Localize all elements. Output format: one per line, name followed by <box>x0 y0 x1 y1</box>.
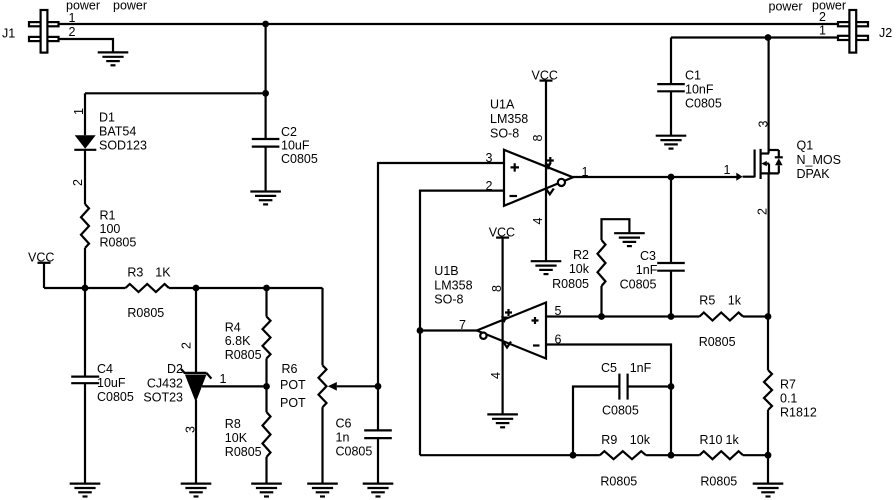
svg-text:2: 2 <box>756 208 770 215</box>
svg-text:C5: C5 <box>601 361 617 375</box>
svg-text:N_MOS: N_MOS <box>797 153 841 167</box>
svg-text:0.1: 0.1 <box>780 392 797 406</box>
svg-text:R4: R4 <box>225 321 241 335</box>
svg-text:7: 7 <box>459 318 466 332</box>
U1A VCC bar <box>540 79 553 81</box>
ground (C6) <box>363 484 394 497</box>
svg-text:R0805: R0805 <box>225 445 262 459</box>
svg-text:SO-8: SO-8 <box>434 293 463 307</box>
wire J1 pin2 to ground <box>59 39 114 52</box>
junction at wiper <box>375 383 382 390</box>
svg-text:power: power <box>769 0 803 14</box>
svg-text:C2: C2 <box>281 125 297 139</box>
junction at C3 bottom <box>668 313 675 320</box>
ground (C4) <box>70 484 101 497</box>
svg-text:10K: 10K <box>225 431 248 445</box>
svg-text:power: power <box>113 0 147 13</box>
junction at C5 left <box>570 452 577 459</box>
capacitor C2 <box>252 139 280 147</box>
wire net power: J1 pin1 to J2 pin2 <box>59 23 839 25</box>
ground (C1) <box>656 136 687 149</box>
svg-text:J2: J2 <box>879 26 892 40</box>
capacitor C5 <box>619 374 627 400</box>
svg-text:1K: 1K <box>155 266 171 280</box>
op-amp U1B <box>477 303 546 359</box>
svg-text:C0805: C0805 <box>602 404 639 418</box>
ground (U1A pin4) <box>531 261 562 274</box>
ground (R8) <box>251 484 282 497</box>
svg-text:2: 2 <box>180 342 194 349</box>
svg-text:1nF: 1nF <box>636 263 658 277</box>
junction on top wire at C2 <box>262 21 269 28</box>
capacitor C4 <box>71 377 99 384</box>
svg-text:R0805: R0805 <box>700 475 737 489</box>
wire U1B pin7 <box>420 329 477 331</box>
svg-text:C0805: C0805 <box>281 152 318 166</box>
transistor Q1 N-MOS <box>736 149 783 181</box>
wire feedback bottom left <box>420 454 600 456</box>
junction rail at R4 <box>263 285 270 292</box>
wire C6 to ground <box>377 438 379 484</box>
svg-text:R5: R5 <box>699 293 715 307</box>
wire R5 to Q1 source <box>743 315 768 317</box>
svg-text:6.8K: 6.8K <box>225 334 251 348</box>
svg-text:C4: C4 <box>97 362 113 376</box>
wire C2 to ground <box>265 147 267 192</box>
svg-text:R0805: R0805 <box>100 236 137 250</box>
wire to D1 anode <box>84 93 86 135</box>
svg-text:1: 1 <box>72 108 86 115</box>
resistor R4 <box>263 317 271 359</box>
svg-text:C0805: C0805 <box>97 390 134 404</box>
svg-text:4: 4 <box>489 372 503 379</box>
svg-text:Q1: Q1 <box>797 139 814 153</box>
svg-text:1n: 1n <box>336 431 350 445</box>
resistor R10 <box>700 451 744 459</box>
wire VCC rail left <box>44 287 126 289</box>
wire R1 to VCC rail <box>84 248 86 288</box>
wire R9 to R10 <box>646 454 700 456</box>
svg-text:R1: R1 <box>100 209 116 223</box>
wire U1A output to Q1 gate <box>573 176 737 178</box>
svg-text:power: power <box>66 0 100 13</box>
svg-text:POT: POT <box>280 378 306 392</box>
svg-text:3: 3 <box>486 151 493 165</box>
diode D1 <box>74 135 96 150</box>
wire C2 column upper <box>265 24 267 139</box>
U1B VCC bar <box>496 237 509 239</box>
ground (R6) <box>307 484 338 497</box>
wire C3 bottom <box>670 271 672 317</box>
svg-text:BAT54: BAT54 <box>99 125 136 139</box>
junction at R7 bottom <box>765 452 772 459</box>
svg-text:R9: R9 <box>601 433 617 447</box>
svg-text:8: 8 <box>531 135 545 142</box>
svg-text:SO-8: SO-8 <box>490 126 519 140</box>
svg-text:R6: R6 <box>282 362 298 376</box>
svg-text:POT: POT <box>280 396 306 410</box>
wire R8 to ground <box>265 457 267 484</box>
svg-text:R0805: R0805 <box>552 277 589 291</box>
svg-text:C0805: C0805 <box>685 97 722 111</box>
ground (U1B pin4) <box>487 414 518 427</box>
svg-text:1k: 1k <box>728 293 742 307</box>
wire C3 top <box>670 177 672 263</box>
junction at U1B pin7 <box>417 327 424 334</box>
connector J1 <box>29 10 59 53</box>
svg-text:D2: D2 <box>167 362 183 376</box>
svg-text:100: 100 <box>100 222 121 236</box>
junction at C5 right <box>668 383 675 390</box>
svg-text:2: 2 <box>486 179 493 193</box>
svg-text:CJ432: CJ432 <box>147 377 183 391</box>
wire R2 bottom <box>600 286 602 317</box>
wire R2 top to ground <box>602 219 630 240</box>
svg-text:R0805: R0805 <box>225 348 262 362</box>
C5 right wire <box>628 385 671 387</box>
svg-text:LM358: LM358 <box>490 112 528 126</box>
op-amp U1A <box>504 150 573 206</box>
diode D2 (CJ432) <box>181 369 211 402</box>
svg-text:D1: D1 <box>99 111 115 125</box>
junction at C2 column <box>262 90 269 97</box>
svg-text:DPAK: DPAK <box>797 167 831 181</box>
svg-text:1: 1 <box>724 163 731 177</box>
capacitor C1 <box>657 84 685 91</box>
ground (J1 pin2) <box>98 52 129 65</box>
svg-text:1k: 1k <box>726 433 740 447</box>
wire rail to R4 <box>265 288 267 317</box>
connector J2 <box>838 10 868 53</box>
svg-text:R3: R3 <box>127 266 143 280</box>
junction at R7 top <box>765 313 772 320</box>
svg-text:10nF: 10nF <box>685 83 714 97</box>
svg-text:C0805: C0805 <box>336 445 373 459</box>
svg-text:1: 1 <box>819 24 826 38</box>
wire wiper to C6 <box>377 386 379 430</box>
wire U1B pin6 net <box>546 345 671 456</box>
wire C1 top <box>670 38 672 85</box>
resistor R7 <box>764 370 772 410</box>
VCC stem <box>43 263 45 288</box>
wire rail to R6 <box>321 288 323 365</box>
wire U1B pin5 net <box>546 315 700 317</box>
svg-text:R1812: R1812 <box>780 406 817 420</box>
svg-text:2: 2 <box>69 25 76 39</box>
wire C1 to ground <box>670 91 672 135</box>
svg-text:5: 5 <box>555 304 562 318</box>
wire R4 to R8 <box>265 359 267 413</box>
capacitor C3 <box>657 263 685 271</box>
wire C4 to ground <box>84 383 86 483</box>
potentiometer R6 <box>319 365 337 407</box>
wire R7 to ground <box>767 410 769 484</box>
R6 wiper wire <box>337 385 378 387</box>
resistor R2 <box>598 240 606 286</box>
svg-text:LM358: LM358 <box>434 278 472 292</box>
junction at R2 <box>598 313 605 320</box>
svg-text:U1A: U1A <box>490 97 515 111</box>
ground (D2) <box>181 484 212 497</box>
svg-text:power: power <box>812 0 846 13</box>
resistor R3 <box>126 284 169 292</box>
svg-text:10uF: 10uF <box>97 376 126 390</box>
svg-text:2: 2 <box>71 179 85 186</box>
svg-text:R10: R10 <box>700 433 723 447</box>
capacitor C6 <box>364 430 392 438</box>
junction rail at R1/C4 <box>82 285 89 292</box>
svg-text:R0805: R0805 <box>127 306 164 320</box>
wire D1 to R1 <box>84 150 86 204</box>
svg-text:R0805: R0805 <box>600 475 637 489</box>
svg-text:U1B: U1B <box>434 264 458 278</box>
wire J2 pin1 net <box>671 36 838 38</box>
U1A power line <box>545 81 547 262</box>
svg-text:10uF: 10uF <box>281 138 310 152</box>
svg-text:10k: 10k <box>630 433 651 447</box>
svg-text:R2: R2 <box>573 248 589 262</box>
Q1 drain wire <box>767 38 769 154</box>
wire D2 to ground <box>195 400 197 484</box>
wire rail to D2 <box>195 288 197 372</box>
svg-text:R7: R7 <box>780 378 796 392</box>
resistor R5 <box>700 313 744 321</box>
ground (R7) <box>753 484 784 497</box>
svg-text:4: 4 <box>531 218 545 225</box>
svg-text:1: 1 <box>220 372 227 386</box>
D2 ref pin wire <box>202 385 267 387</box>
wire VCC rail right <box>169 287 323 289</box>
svg-text:10k: 10k <box>569 262 590 276</box>
wire U1A pin3 net <box>378 163 504 386</box>
svg-text:SOD123: SOD123 <box>99 139 147 153</box>
svg-text:J1: J1 <box>2 27 15 41</box>
wire R7 top <box>767 317 769 371</box>
svg-text:SOT23: SOT23 <box>143 391 183 405</box>
wire U1A pin2 net to feedback <box>420 191 504 456</box>
resistor R1 <box>81 204 89 248</box>
svg-text:R8: R8 <box>225 417 241 431</box>
resistor R9 <box>600 451 646 459</box>
junction at R9 right <box>668 452 675 459</box>
svg-text:C6: C6 <box>336 417 352 431</box>
svg-text:1nF: 1nF <box>630 361 652 375</box>
svg-text:C3: C3 <box>640 249 656 263</box>
svg-text:R0805: R0805 <box>699 335 736 349</box>
wire node to D1 column <box>85 92 266 94</box>
junction at D2 ref <box>263 383 270 390</box>
junction at Q1 drain <box>765 34 772 41</box>
ground (C2) <box>250 192 281 205</box>
resistor R8 <box>263 412 271 457</box>
Q1 source wire <box>767 173 769 316</box>
wire R6 to ground <box>321 407 323 483</box>
VCC bar <box>38 262 51 264</box>
wire rail to C4 <box>84 288 86 377</box>
svg-text:C0805: C0805 <box>620 278 657 292</box>
junction at C3 top <box>668 174 675 181</box>
U1B power line <box>502 238 504 415</box>
junction rail at D2 <box>193 285 200 292</box>
wire R10 to R7 <box>743 454 768 456</box>
svg-text:C1: C1 <box>685 69 701 83</box>
ground (R2 top) <box>614 233 645 246</box>
C5 left wire <box>573 387 619 456</box>
